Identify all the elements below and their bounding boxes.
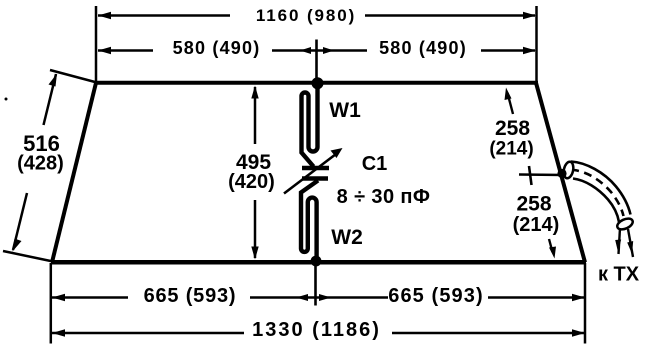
coax cable tube outer edge [571, 162, 631, 215]
extension line bottom-right [584, 263, 587, 344]
capacitor C1 variable arrow [284, 153, 338, 194]
svg-text:W1: W1 [329, 99, 361, 122]
wire center line bottom [314, 263, 317, 306]
wire right slant edge [536, 83, 585, 262]
extension line top-left [95, 6, 98, 82]
extension line for 516 at bottom-left corner [3, 251, 53, 262]
svg-text:(214): (214) [513, 214, 560, 236]
svg-text:1160 (980): 1160 (980) [256, 6, 356, 25]
coax cable dashed center conductor [574, 170, 624, 216]
extension line top-right [535, 6, 538, 84]
node feed junction on right slant [557, 169, 566, 178]
svg-text:W2: W2 [331, 226, 363, 249]
dimension line 1330 (1186) [52, 332, 584, 335]
feed point tick line on right slant [519, 173, 564, 176]
svg-text:8 ÷ 30 пФ: 8 ÷ 30 пФ [337, 186, 431, 208]
svg-text:258: 258 [495, 117, 530, 140]
coax cable tail wire right [628, 229, 633, 257]
extension line bottom-left [50, 263, 53, 344]
svg-text:(428): (428) [17, 153, 64, 175]
coax cable end cap [616, 216, 635, 231]
dimension line 495 (420) vertical [254, 87, 257, 258]
svg-text:258: 258 [516, 193, 551, 216]
wire top edge of antenna canvas [94, 81, 538, 85]
dimension line 516 (428) upper segment [44, 74, 57, 125]
capacitor C1 bottom plate [302, 176, 328, 180]
wire left slant edge [52, 83, 96, 262]
speck [5, 98, 8, 101]
svg-text:C1: C1 [362, 153, 388, 175]
svg-text:1330 (1186): 1330 (1186) [252, 319, 381, 341]
dimension line 1160 (980) [98, 14, 535, 16]
wire center feed line top [315, 40, 318, 83]
coax cable tail wire left [619, 228, 621, 254]
svg-text:(420): (420) [228, 171, 275, 193]
svg-text:580 (490): 580 (490) [173, 38, 261, 58]
dimension line 665 (593) left / right [52, 296, 584, 299]
dimension line 580 (490) left / right [98, 49, 535, 52]
svg-text:580 (490): 580 (490) [379, 38, 467, 58]
coax cable start ring [562, 161, 574, 179]
coil W1 (hairpin loop) [302, 82, 318, 167]
arrow for lower 258 pointing to bottom edge [549, 239, 553, 252]
coax cable tube inner edge [573, 179, 619, 223]
node junction dot bottom center [311, 256, 322, 267]
svg-text:665 (593): 665 (593) [144, 285, 237, 307]
coil W2 (hairpin loop) [301, 181, 318, 261]
node junction dot top center [312, 77, 324, 89]
svg-text:665 (593): 665 (593) [388, 285, 484, 307]
wire bottom edge of antenna canvas [51, 260, 586, 265]
svg-text:к ТХ: к ТХ [598, 264, 640, 286]
arrow for upper 258 pointing to top edge [508, 93, 514, 114]
arrowheads at center tick of 580 dims [300, 47, 311, 54]
dimension line 516 (428) lower segment [13, 193, 27, 250]
svg-text:(214): (214) [489, 139, 533, 160]
extension line for 516 at top-left corner [50, 70, 95, 82]
capacitor C1 top plate [302, 166, 329, 170]
